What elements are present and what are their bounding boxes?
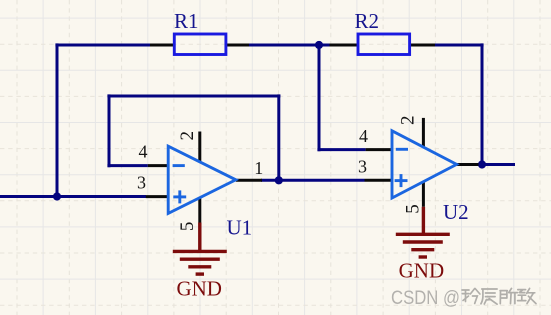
junction node A between R1 and R2 bbox=[315, 41, 323, 49]
wire: U1 feedback right vertical down to output node bbox=[277, 94, 280, 180]
wire: top net to R1 left bbox=[55, 44, 150, 47]
op-amp U1 pin 1 output lead bbox=[236, 179, 262, 182]
op-amp U1 minus mark bbox=[173, 164, 185, 167]
op-amp U2 pin 2 lead bbox=[422, 118, 425, 148]
wire: U2 output stub right bbox=[482, 163, 515, 166]
op-amp U1 pin 3 lead bbox=[146, 195, 168, 198]
op-amp U1 pin 5 lead bbox=[198, 197, 201, 222]
svg-text:1: 1 bbox=[254, 158, 263, 178]
svg-text:GND: GND bbox=[399, 259, 445, 283]
op-amp U2 pin 4 lead bbox=[366, 148, 392, 151]
resistor R1 leads bbox=[150, 44, 249, 47]
wire: to U1 pin 4 bbox=[107, 164, 147, 167]
wire: R2 right to top-right corner bbox=[435, 44, 484, 47]
resistor R1 body bbox=[174, 34, 226, 55]
ground symbol below U1 bbox=[173, 223, 227, 275]
svg-text:5: 5 bbox=[177, 222, 198, 232]
op-amp U2 pin 3 lead bbox=[365, 179, 393, 182]
svg-text:R1: R1 bbox=[174, 9, 199, 33]
watermark CJK glyphs (drawn) bbox=[462, 288, 536, 304]
svg-text:2: 2 bbox=[177, 131, 198, 141]
ground symbol below U2 bbox=[396, 207, 450, 257]
wire: input net, horizontal left bbox=[0, 195, 146, 198]
svg-text:R2: R2 bbox=[355, 9, 380, 33]
resistor R2 leads bbox=[330, 44, 436, 47]
junction node at U1 output bbox=[275, 176, 283, 184]
wire: U1 feedback left vertical bbox=[108, 94, 111, 167]
op-amp U2 plus mark bbox=[395, 174, 408, 187]
svg-text:CSDN @: CSDN @ bbox=[391, 287, 460, 309]
svg-text:U1: U1 bbox=[227, 216, 253, 240]
svg-text:3: 3 bbox=[358, 156, 367, 176]
op-amp U2 minus mark bbox=[396, 148, 408, 151]
wire: right vertical from R2 down to U2 output node bbox=[481, 43, 484, 164]
svg-text:4: 4 bbox=[139, 141, 148, 161]
svg-text:U2: U2 bbox=[443, 200, 469, 224]
wire: U1 output to U2 pin 3 bbox=[261, 179, 365, 182]
junction node at U2 output bbox=[478, 160, 486, 168]
op-amp U1 triangle bbox=[168, 146, 236, 213]
wire: node A down to U2 pin4 row bbox=[318, 45, 321, 151]
svg-text:4: 4 bbox=[359, 126, 368, 146]
wire: vertical from input junction up to top net bbox=[56, 43, 59, 196]
op-amp U2 pin 5 lead bbox=[422, 182, 425, 207]
junction node on input wire bbox=[53, 192, 61, 200]
wire: U1 feedback top horizontal bbox=[107, 95, 280, 98]
svg-text:5: 5 bbox=[402, 204, 423, 214]
wire: R1 right to node A bbox=[249, 44, 331, 47]
svg-text:3: 3 bbox=[137, 172, 146, 192]
svg-text:2: 2 bbox=[398, 116, 419, 126]
op-amp U2 output lead bbox=[457, 163, 479, 166]
wire: horizontal to U2 pin 4 bbox=[317, 148, 365, 151]
op-amp U1 pin 2 lead bbox=[198, 132, 201, 163]
resistor R2 body bbox=[358, 34, 410, 55]
svg-text:GND: GND bbox=[176, 277, 222, 301]
op-amp U1 pin 4 lead bbox=[148, 164, 168, 167]
op-amp U1 plus mark bbox=[173, 190, 186, 203]
op-amp U2 triangle bbox=[392, 131, 457, 198]
